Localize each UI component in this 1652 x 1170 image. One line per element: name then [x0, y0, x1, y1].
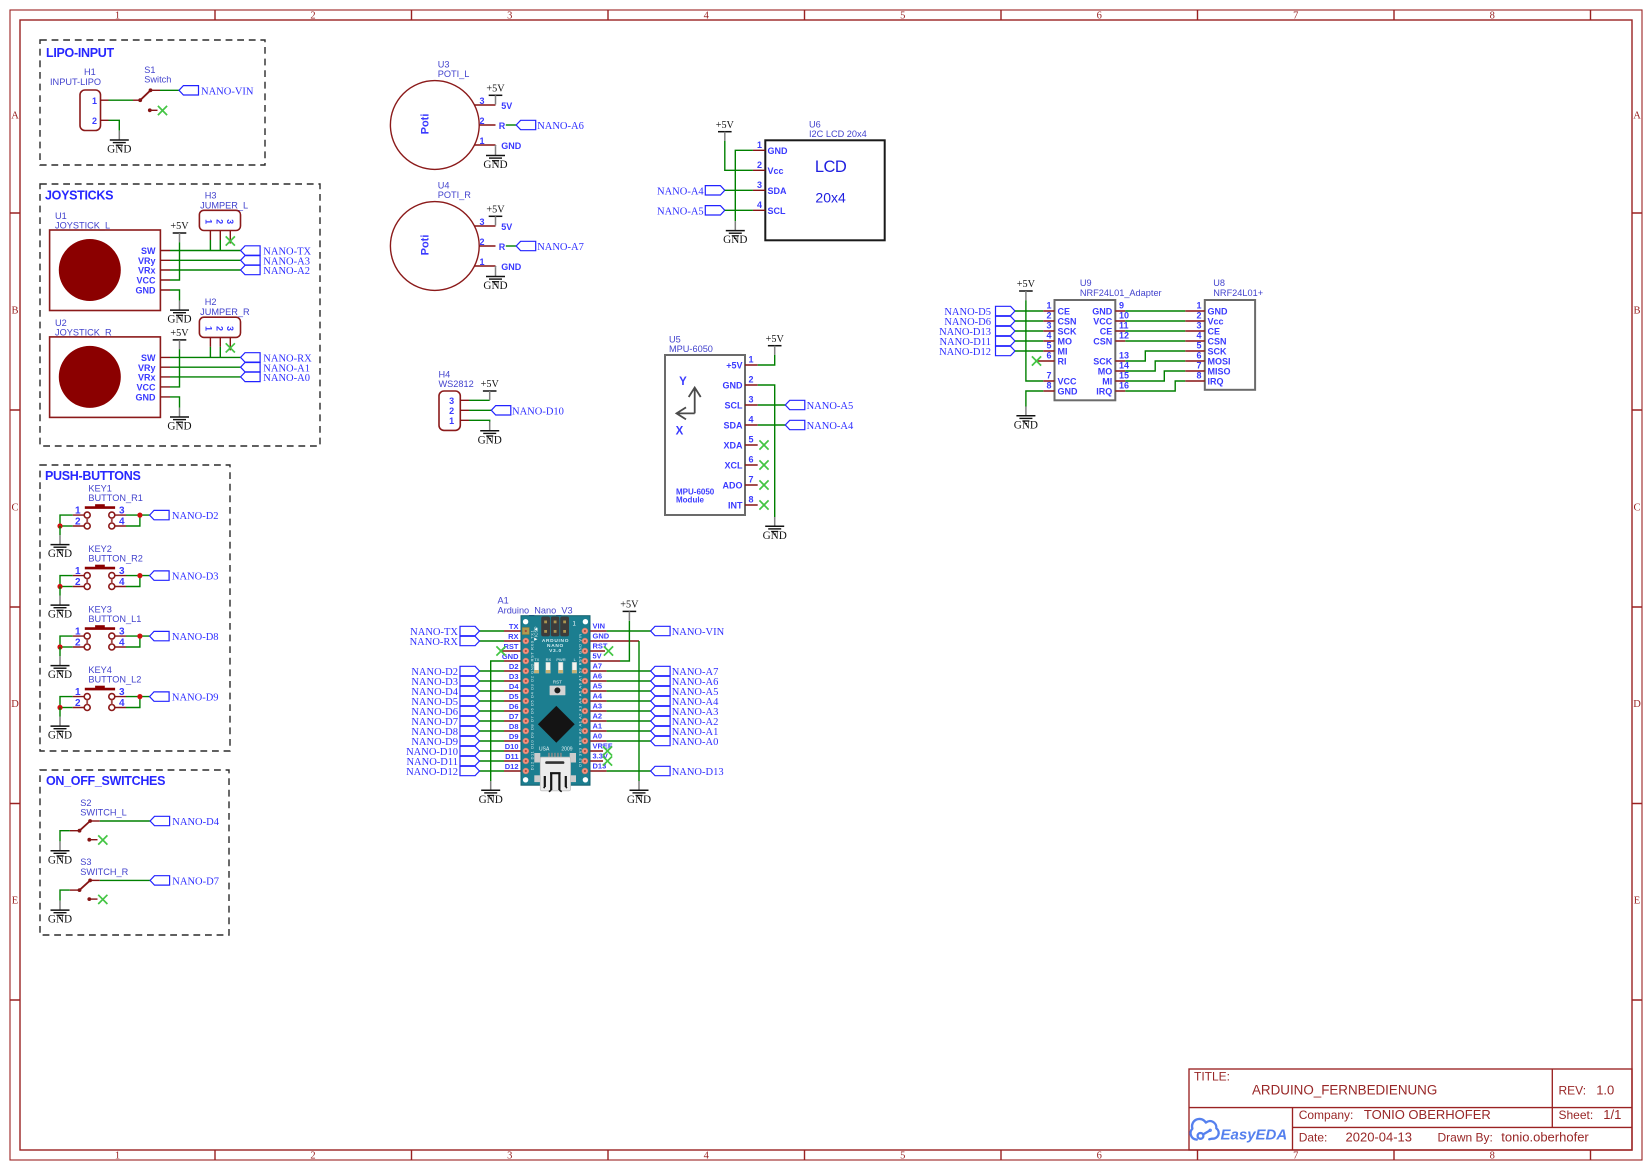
pin stub A1 A4 [585, 700, 607, 702]
svg-text:S1: S1 [144, 65, 155, 75]
company/date divider [1293, 1126, 1633, 1128]
wire A1 A1 to NANO-A1 [607, 730, 651, 732]
wire NANO-D9 to A1 D9 [480, 740, 505, 742]
svg-text:NANO-D8: NANO-D8 [172, 632, 219, 643]
net flag NANO-A0 [241, 372, 261, 381]
wire KEY1.2 to junction [60, 525, 73, 527]
section box PUSH-BUTTONS [40, 465, 230, 751]
no-connect X on A1 VREF [603, 746, 612, 755]
wire U2 VRx to NANO-A0 [170, 376, 241, 378]
svg-text:VCC: VCC [1093, 317, 1113, 327]
ground GND U6 [723, 221, 747, 246]
net flag NANO-D11 [996, 336, 1016, 345]
svg-text:3: 3 [1046, 321, 1051, 331]
power +5V NRF [1017, 279, 1036, 300]
wire U3.2 to NANO-A6 [506, 124, 516, 126]
wire U1 VRx to NANO-A2 [170, 269, 241, 271]
wire NANO-D4 to A1 D4 [480, 690, 505, 692]
wire A1 A3 to NANO-A3 [607, 710, 651, 712]
svg-text:2: 2 [310, 11, 315, 22]
svg-text:3: 3 [225, 219, 235, 224]
power +5V U2 [170, 328, 189, 349]
no-connect X on U5.6 XCL [759, 460, 768, 469]
wire NANO-D11 to A1 D11 [480, 760, 505, 762]
svg-text:7: 7 [1046, 371, 1051, 381]
svg-text:Vcc: Vcc [768, 166, 784, 176]
svg-text:1: 1 [1046, 301, 1051, 311]
pin stub A1 TX [504, 630, 526, 632]
svg-text:U8: U8 [1213, 278, 1225, 288]
svg-text:NANO-A2: NANO-A2 [263, 266, 310, 277]
svg-text:2: 2 [1196, 311, 1201, 321]
wire A1 A0 to NANO-A0 [607, 740, 651, 742]
net flag NANO-VIN [179, 86, 199, 95]
wire +5V rail to U9 VCC [1026, 300, 1043, 381]
svg-text:5V: 5V [501, 222, 512, 232]
svg-text:GND: GND [136, 393, 157, 403]
net flag NANO-A6 [651, 676, 671, 685]
EasyEDA logo cloud [1191, 1119, 1219, 1140]
push-button KEY3 BUTTON_L1 [73, 605, 142, 651]
svg-text:7: 7 [1293, 11, 1298, 22]
push-button KEY2 BUTTON_R2 [73, 544, 143, 590]
svg-text:D: D [11, 699, 19, 710]
svg-text:14: 14 [1119, 361, 1129, 371]
no-connect X on U5.7 ADO [759, 480, 768, 489]
svg-text:3: 3 [225, 326, 235, 331]
svg-text:10: 10 [1119, 311, 1129, 321]
wire U9.10 to U8.2 [1125, 320, 1185, 322]
svg-text:BUTTON_R2: BUTTON_R2 [88, 554, 142, 564]
power +5V H4 [481, 379, 500, 400]
pin stub A1 D10 [504, 750, 526, 752]
wire NANO-D6 to U9 [1015, 320, 1043, 322]
wire U2 GND to ground [170, 397, 180, 408]
svg-text:8: 8 [1490, 1151, 1495, 1162]
svg-text:SCK: SCK [1208, 347, 1228, 357]
svg-text:JUMPER_R: JUMPER_R [200, 307, 250, 317]
junction KEY4 left [57, 705, 62, 710]
svg-text:CSN: CSN [1208, 337, 1227, 347]
net flag NANO-D8 [150, 631, 170, 640]
svg-text:1/1: 1/1 [1603, 1107, 1621, 1122]
net flag NANO-A4 lcd [705, 186, 725, 195]
wire junction to ground [59, 587, 61, 596]
net flag NANO-A0 [651, 736, 671, 745]
svg-text:SDA: SDA [768, 186, 788, 196]
wire S3 common to ground [60, 890, 70, 901]
svg-text:2: 2 [310, 1151, 315, 1162]
net flag NANO-D2 [460, 666, 480, 675]
svg-text:3: 3 [449, 396, 454, 406]
svg-text:JUMPER_L: JUMPER_L [200, 200, 248, 210]
svg-text:A1: A1 [498, 596, 509, 606]
junction KEY2 left [57, 584, 62, 589]
svg-text:1: 1 [449, 416, 454, 426]
wire NANO-RX to A1 RX [480, 640, 505, 642]
pin stub A1 A5 [585, 690, 607, 692]
svg-text:VCC: VCC [1058, 377, 1078, 387]
no-connect X on S3 [98, 895, 107, 904]
pin stub A1 GND left [504, 660, 526, 662]
module U6 I2C LCD 20x4 [753, 119, 885, 240]
wire KEY3.2 to junction [60, 646, 73, 648]
pin stub A1 A3 [585, 710, 607, 712]
wire NANO-D10 to A1 D10 [480, 750, 505, 752]
no-connect X on U5.5 XDA [759, 440, 768, 449]
pin stub A1 3.3V [585, 760, 603, 762]
logo cell divider [1292, 1108, 1294, 1150]
wire U1 SW to NANO-TX [170, 250, 241, 252]
svg-text:E: E [1634, 896, 1640, 907]
svg-text:A2: A2 [593, 712, 603, 721]
svg-text:5: 5 [900, 1151, 905, 1162]
svg-text:KEY3: KEY3 [88, 605, 112, 615]
svg-text:INT: INT [728, 501, 743, 511]
svg-text:5: 5 [900, 11, 905, 22]
net flag NANO-D9 [150, 692, 170, 701]
ground GND U1 [167, 301, 191, 326]
svg-text:XCL: XCL [725, 461, 744, 471]
svg-text:PUSH-BUTTONS: PUSH-BUTTONS [45, 469, 140, 483]
net flag NANO-A1 [241, 363, 261, 372]
svg-text:I2C LCD 20x4: I2C LCD 20x4 [809, 129, 867, 139]
no-connect X on A1 RST left [496, 646, 505, 655]
svg-text:CE: CE [1208, 327, 1221, 337]
pcb body A1 Arduino Nano [521, 616, 590, 792]
wire +5V to U1 VCC [170, 242, 180, 280]
wire KEY4.1 to junction [60, 697, 73, 708]
ground GND A1 left [479, 781, 503, 806]
joystick U2 JOYSTICK_R [50, 318, 170, 418]
svg-text:A3: A3 [593, 702, 603, 711]
wire junction to ground [59, 647, 61, 656]
svg-text:2: 2 [214, 219, 224, 224]
svg-text:D12: D12 [505, 762, 519, 771]
rev/sheet column divider [1551, 1069, 1553, 1127]
wire junction to ground [59, 708, 61, 717]
svg-text:8: 8 [1196, 371, 1201, 381]
svg-text:Module: Module [676, 496, 705, 505]
pin stub A1 D5 [504, 700, 526, 702]
net flag NANO-D2 [150, 510, 170, 519]
svg-text:SCK: SCK [1058, 327, 1078, 337]
svg-text:U2: U2 [55, 318, 67, 328]
net flag NANO-A5 lcd [705, 206, 725, 215]
ground GND U2 [167, 408, 191, 433]
svg-text:TX: TX [509, 622, 519, 631]
svg-text:2: 2 [214, 326, 224, 331]
svg-text:WS2812: WS2812 [439, 379, 474, 389]
net flag NANO-A6 [516, 120, 536, 129]
svg-text:MPU-6050: MPU-6050 [669, 344, 713, 354]
svg-text:A5: A5 [593, 682, 603, 691]
svg-text:BUTTON_R1: BUTTON_R1 [88, 493, 142, 503]
svg-text:V3.0: V3.0 [549, 648, 562, 654]
jumper H3 JUMPER_L [199, 190, 248, 243]
wire U6.1 GND to ground [735, 150, 753, 221]
svg-text:S3: S3 [80, 857, 91, 867]
svg-text:TITLE:: TITLE: [1194, 1070, 1230, 1084]
svg-text:R: R [499, 121, 506, 131]
wire S2 common to ground [60, 831, 70, 842]
pin stub A1 D11 [504, 760, 526, 762]
wire H4.2 to NANO-D10 [469, 409, 491, 411]
net flag NANO-RX [460, 636, 480, 645]
svg-text:EasyEDA: EasyEDA [1221, 1127, 1288, 1144]
ground GND H4 [478, 422, 502, 447]
svg-text:U6: U6 [809, 119, 821, 129]
svg-text:RST: RST [504, 642, 519, 651]
pin stub A1 D12 [504, 770, 526, 772]
svg-text:MO: MO [1098, 367, 1113, 377]
net flag NANO-D3 [460, 676, 480, 685]
svg-text:NANO-A0: NANO-A0 [672, 737, 719, 748]
svg-text:SDA: SDA [723, 421, 743, 431]
svg-text:4: 4 [749, 415, 754, 425]
wire +5V to U2 VCC [170, 349, 180, 387]
pin stub A1 A2 [585, 720, 607, 722]
module U5 MPU-6050 [665, 335, 758, 516]
no-connect X on U9.6 RI [1032, 356, 1041, 365]
pin stub A1 RX [504, 640, 526, 642]
svg-text:JOYSTICK_L: JOYSTICK_L [55, 221, 110, 231]
svg-text:C: C [11, 503, 18, 514]
svg-text:D4: D4 [509, 682, 519, 691]
svg-text:BUTTON_L2: BUTTON_L2 [88, 675, 141, 685]
ground GND S2 [48, 841, 72, 866]
svg-text:RST: RST [593, 642, 608, 651]
pin stub A1 A1 [585, 730, 607, 732]
net flag NANO-D12 [996, 346, 1016, 355]
pin stub A1 D3 [504, 680, 526, 682]
column ticks bottom [215, 1150, 1591, 1160]
ground GND KEY3 [48, 656, 72, 681]
svg-text:KEY1: KEY1 [88, 484, 112, 494]
svg-text:U5: U5 [669, 335, 681, 345]
svg-text:KEY2: KEY2 [88, 544, 112, 554]
ground GND KEY4 [48, 717, 72, 742]
net flag NANO-TX [460, 626, 480, 635]
svg-text:D5: D5 [509, 692, 519, 701]
svg-text:6: 6 [1097, 11, 1102, 22]
svg-text:B: B [11, 306, 18, 317]
section box JOYSTICKS [40, 184, 320, 446]
svg-text:3: 3 [757, 180, 762, 190]
pin stub A1 A0 [585, 740, 607, 742]
wire S3 to NANO-D7 [100, 879, 150, 881]
svg-text:SWITCH_L: SWITCH_L [80, 808, 126, 818]
net flag NANO-A4 [785, 420, 805, 429]
wire S1 to NANO-VIN [160, 89, 179, 91]
svg-text:INPUT-LIPO: INPUT-LIPO [50, 77, 101, 87]
svg-text:9: 9 [1119, 301, 1124, 311]
wire NANO-D3 to A1 D3 [480, 680, 505, 682]
svg-text:D6: D6 [509, 702, 519, 711]
svg-text:D12 D11 D10 D9 D8 D7 D6 D5 D4: D12 D11 D10 D9 D8 D7 D6 D5 D4 D3 D2 GND … [530, 630, 535, 771]
joystick U1 JOYSTICK_L [50, 211, 170, 311]
svg-text:NRF24L01_Adapter: NRF24L01_Adapter [1080, 288, 1162, 298]
wire NANO-D6 to A1 D6 [480, 710, 505, 712]
wire U9.9 to U8.1 [1125, 310, 1185, 312]
svg-text:Poti: Poti [420, 114, 432, 135]
svg-text:8: 8 [1490, 11, 1495, 22]
pin labels A1 right [593, 622, 613, 771]
svg-text:U4: U4 [438, 181, 450, 191]
svg-text:D10: D10 [505, 742, 519, 751]
svg-text:RI: RI [1058, 357, 1067, 367]
svg-text:KEY4: KEY4 [88, 665, 112, 675]
svg-text:SCL: SCL [768, 206, 787, 216]
svg-text:16: 16 [1119, 381, 1129, 391]
net flag NANO-RX [241, 353, 261, 362]
svg-text:Date:: Date: [1299, 1130, 1328, 1144]
wire U1 GND to ground [170, 290, 180, 301]
svg-text:VRx: VRx [138, 266, 156, 276]
pin stub A1 D4 [504, 690, 526, 692]
svg-text:6: 6 [749, 455, 754, 465]
svg-text:7: 7 [1196, 361, 1201, 371]
svg-text:H3: H3 [205, 190, 217, 200]
net flag NANO-D13 [651, 766, 671, 775]
net flag NANO-VIN [651, 626, 671, 635]
svg-text:NANO-D3: NANO-D3 [172, 572, 219, 583]
jumper H2 JUMPER_R [199, 297, 250, 350]
svg-text:MISO: MISO [1208, 367, 1231, 377]
net flag NANO-D13 [996, 326, 1016, 335]
svg-text:MOSI: MOSI [1208, 357, 1231, 367]
svg-text:USA: USA [539, 747, 550, 753]
ground GND H1 [107, 131, 131, 156]
net flag NANO-A4 [651, 696, 671, 705]
svg-text:Company:: Company: [1299, 1108, 1354, 1122]
svg-text:VRy: VRy [138, 256, 156, 266]
svg-text:H1: H1 [84, 67, 96, 77]
svg-text:NANO-A5: NANO-A5 [657, 206, 704, 217]
title row divider [1189, 1107, 1632, 1109]
potentiometer U3 POTI_L [390, 60, 521, 170]
net flag NANO-D7 [150, 876, 170, 885]
svg-text:RX: RX [508, 632, 518, 641]
section box LIPO-INPUT [40, 40, 265, 165]
column ticks top [215, 10, 1591, 20]
title block outline [1189, 1069, 1632, 1150]
header H1 INPUT-LIPO [50, 67, 109, 130]
wire NANO-D13 to U9 [1015, 330, 1043, 332]
wire H1.2 to ground [109, 120, 120, 130]
svg-text:RX: RX [546, 657, 552, 662]
svg-text:7: 7 [749, 475, 754, 485]
net flag NANO-D11 [460, 756, 480, 765]
svg-text:IRQ: IRQ [1208, 377, 1224, 387]
WS2812 [439, 370, 564, 447]
svg-text:NANO-VIN: NANO-VIN [201, 86, 254, 97]
wire KEY2.4 wrap [126, 576, 140, 587]
svg-text:2: 2 [757, 160, 762, 170]
svg-text:3: 3 [1196, 321, 1201, 331]
svg-text:8: 8 [1046, 381, 1051, 391]
svg-text:2: 2 [749, 375, 754, 385]
svg-text:CE: CE [1100, 327, 1113, 337]
wire H4.1 to ground [469, 420, 490, 421]
svg-text:Arduino_Nano_V3: Arduino_Nano_V3 [498, 605, 573, 615]
svg-text:VCC: VCC [136, 276, 156, 286]
junction KEY1 left [57, 523, 62, 528]
wire KEY3.1 to junction [60, 636, 73, 647]
svg-text:SW: SW [141, 353, 156, 363]
svg-text:4: 4 [704, 1151, 710, 1162]
svg-text:1.0: 1.0 [1596, 1083, 1614, 1098]
wire U9.15 MI to U8.7 [1125, 371, 1185, 381]
svg-text:5V: 5V [501, 101, 512, 111]
svg-text:GND: GND [768, 146, 789, 156]
wire H3.1 to SW net [209, 240, 211, 251]
header H4 WS2812 [439, 370, 474, 431]
wire H4.3 to +5V [469, 399, 490, 401]
wire U9.13 SCK to U8.5 [1125, 351, 1185, 361]
wire H1.1 to S1 [109, 99, 134, 101]
wire NANO-D8 to A1 D8 [480, 730, 505, 732]
svg-text:GND: GND [593, 632, 610, 641]
junction KEY2 right [137, 573, 142, 578]
ground GND KEY1 [48, 535, 72, 560]
svg-text:7: 7 [1293, 1151, 1298, 1162]
svg-text:NRF24L01+: NRF24L01+ [1213, 288, 1263, 298]
wire KEY3.4 wrap [126, 636, 140, 647]
pin stub A1 VIN [585, 630, 607, 632]
section box ON_OFF_SWITCHES [40, 770, 229, 935]
ARDUINO [406, 596, 725, 806]
wire +5V to U6.2 Vcc [725, 141, 753, 170]
wire NANO-D2 to A1 D2 [480, 670, 505, 672]
MPU [665, 334, 854, 542]
svg-text:GND: GND [136, 286, 157, 296]
wire U2 VRy to NANO-A1 [170, 366, 241, 368]
POTIS [390, 60, 583, 293]
svg-text:4: 4 [1046, 331, 1051, 341]
pin stub A1 D13 [585, 770, 607, 772]
svg-text:NANO-D9: NANO-D9 [172, 693, 219, 704]
svg-text:NANO-D2: NANO-D2 [172, 511, 219, 522]
svg-text:SW: SW [141, 246, 156, 256]
svg-text:D9: D9 [509, 732, 519, 741]
switch S3 SWITCH_R [70, 857, 129, 901]
svg-text:SWITCH_R: SWITCH_R [80, 867, 128, 877]
wire A1 A4 to NANO-A4 [607, 700, 651, 702]
svg-text:ARDUINO_FERNBEDIENUNG: ARDUINO_FERNBEDIENUNG [1252, 1083, 1437, 1098]
wire junction to ground [59, 526, 61, 535]
no-connect X on S1 [158, 106, 167, 115]
no-connect X on A1 3.3V [603, 756, 612, 765]
svg-text:NANO-A5: NANO-A5 [807, 401, 854, 412]
svg-text:CE: CE [1058, 307, 1071, 317]
svg-text:LCD: LCD [815, 158, 847, 176]
power +5V U3 [486, 84, 505, 105]
svg-text:Vcc: Vcc [1208, 317, 1224, 327]
net flag NANO-D10 [460, 746, 480, 755]
svg-text:C: C [1633, 503, 1640, 514]
wire A1 VIN to NANO-VIN [607, 630, 651, 632]
svg-text:D8: D8 [509, 722, 519, 731]
no-connect X on H3.3 [226, 236, 235, 245]
SECTION-PUSHBUTTONS [40, 465, 230, 751]
axis glyph X arrow [677, 407, 695, 419]
svg-text:Switch: Switch [144, 75, 171, 85]
svg-text:A0: A0 [593, 732, 603, 741]
wire NANO-D11 to U9 [1015, 340, 1043, 342]
net flag NANO-D12 [460, 766, 480, 775]
svg-text:U3: U3 [438, 60, 450, 70]
